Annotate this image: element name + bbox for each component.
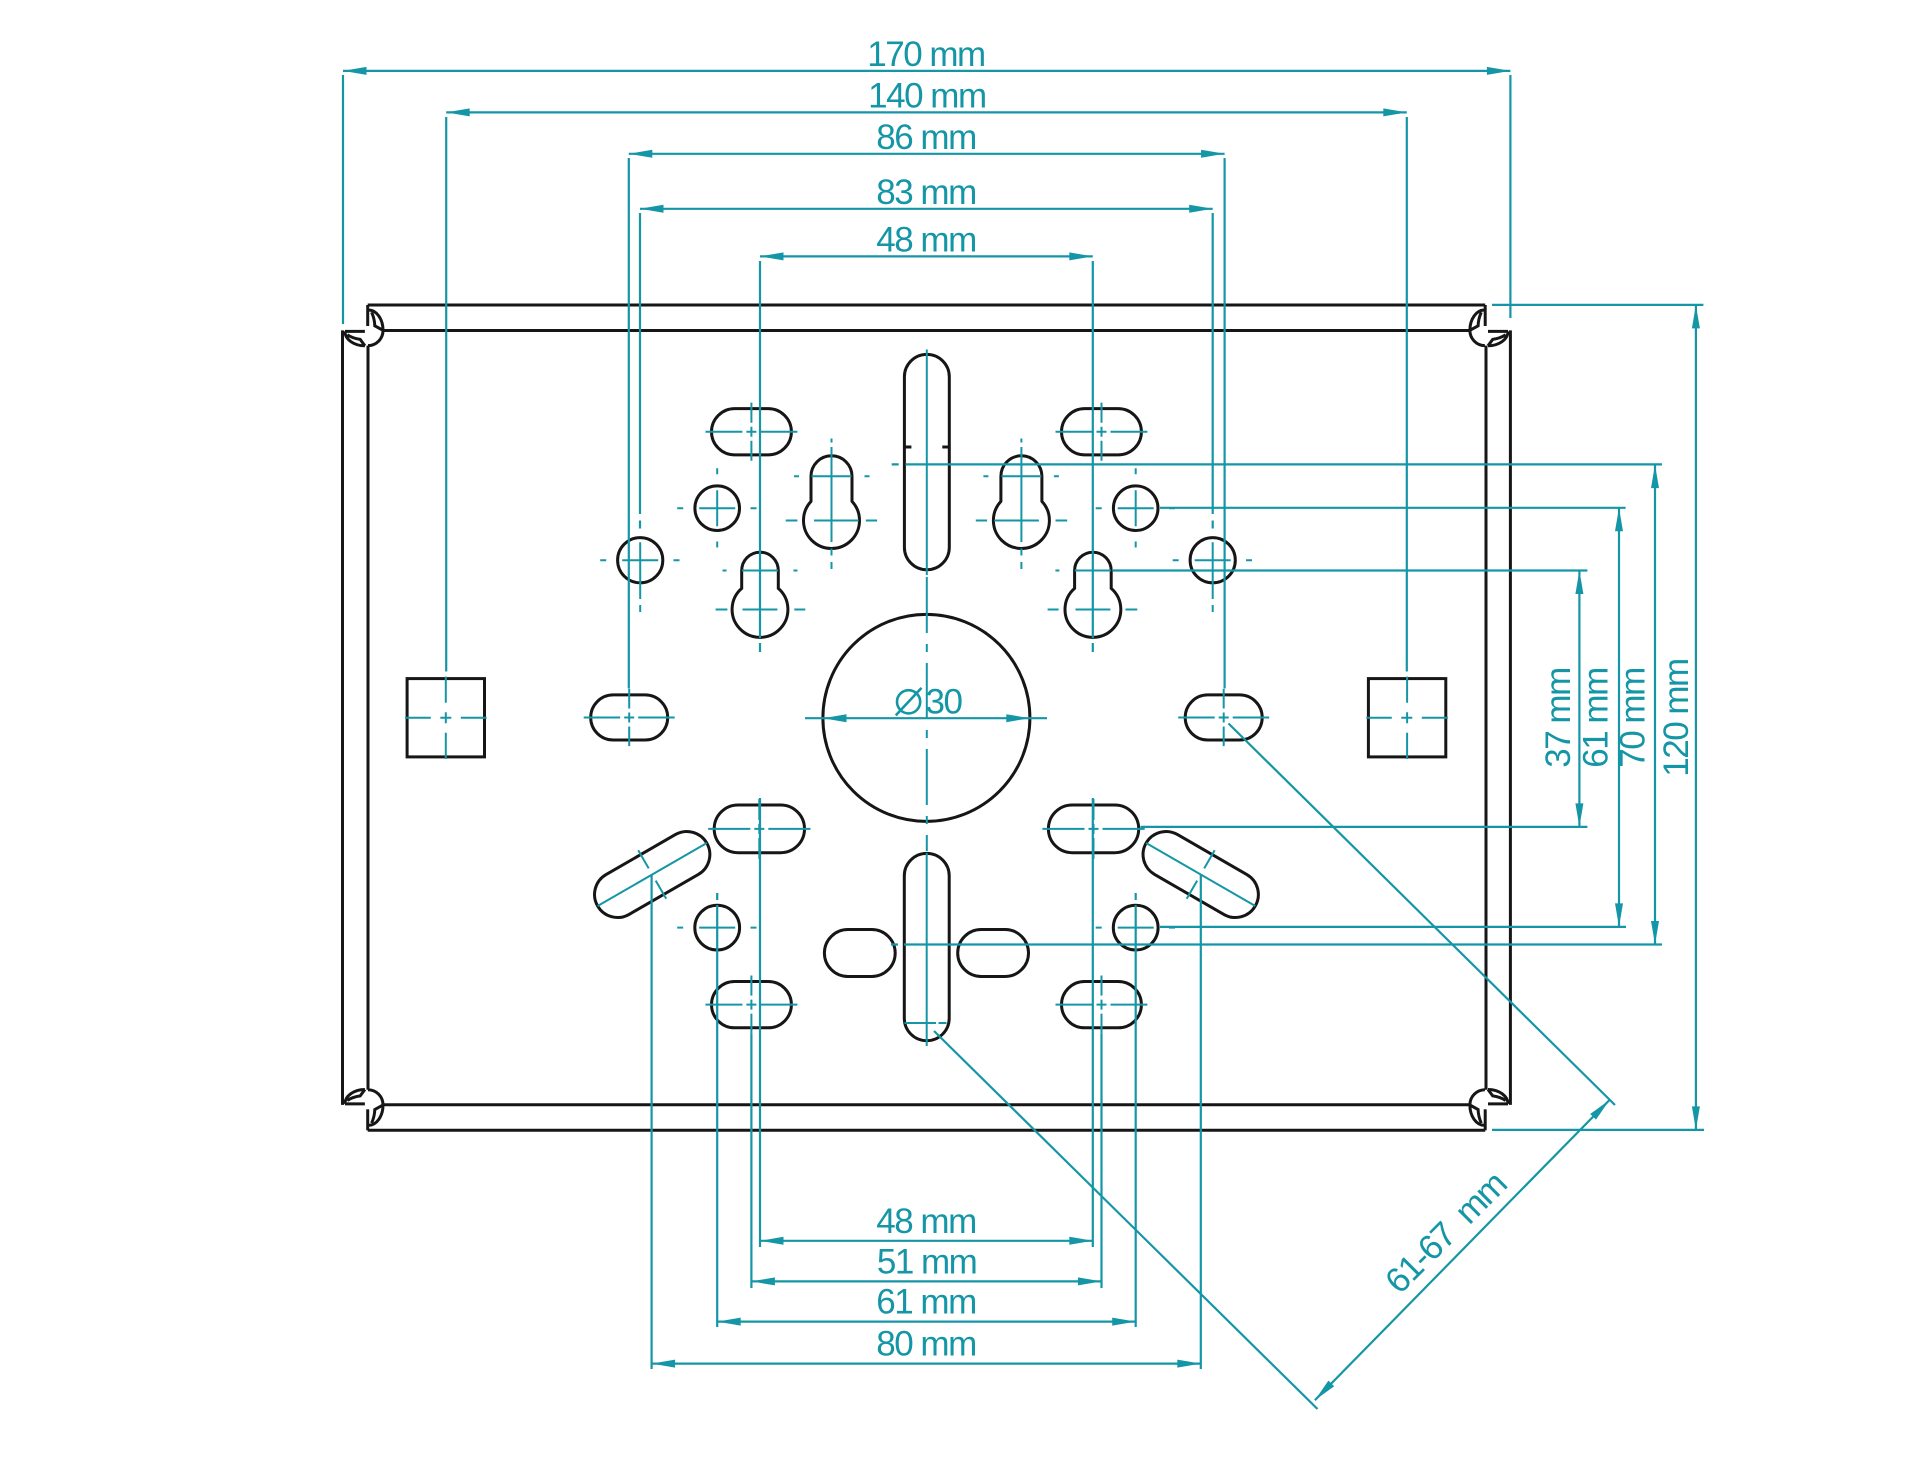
small obround bottom-center right <box>958 930 1029 977</box>
crosshair mid obround left <box>584 689 675 746</box>
keyhole A left <box>804 456 860 549</box>
corner curl bottom-left <box>345 1090 383 1131</box>
crosshair circle upper-inner left <box>677 468 756 547</box>
crosshair circle lower left <box>677 927 756 929</box>
crosshair keyhole B left <box>716 571 806 610</box>
dimension 170 mm <box>343 70 1510 72</box>
crosshair top obround right <box>1056 403 1148 461</box>
central slot top <box>904 354 949 569</box>
dimension 70 mm <box>1654 465 1656 945</box>
dimension 51 mm <box>751 1280 1101 1282</box>
angled slot left <box>586 823 718 926</box>
svg-text:120 mm: 120 mm <box>1657 659 1696 776</box>
centerline angled slot right <box>1146 843 1255 906</box>
square hole right <box>1368 679 1445 757</box>
dimension 48 mm top <box>760 255 1093 257</box>
svg-text:48 mm: 48 mm <box>876 220 975 259</box>
plate top edge inner <box>383 329 1470 332</box>
dimension 83 mm <box>640 208 1213 210</box>
dimension D30 <box>805 717 1047 719</box>
dimension 48 mm bottom <box>760 1240 1093 1242</box>
crosshair square right <box>1366 677 1448 759</box>
svg-text:83 mm: 83 mm <box>876 173 975 212</box>
corner curl bottom-right <box>1470 1090 1508 1131</box>
crosshair keyhole B right <box>1048 571 1138 610</box>
lower obround 51 left <box>712 982 792 1028</box>
dimension 80 mm <box>652 1362 1201 1364</box>
centerline angled slot left <box>598 843 707 906</box>
plate left edge inner <box>367 346 370 1090</box>
svg-text:37 mm: 37 mm <box>1539 668 1578 767</box>
centerline central circle vertical <box>926 350 928 576</box>
dimension 61 mm right <box>1618 508 1620 927</box>
mid obround right <box>1185 695 1262 740</box>
svg-text:170 mm: 170 mm <box>867 35 984 74</box>
svg-text:51 mm: 51 mm <box>877 1242 976 1281</box>
crosshair square left <box>405 677 487 759</box>
central slot top seam ticks <box>904 446 949 449</box>
crosshair lower obround 51 left <box>706 976 798 1034</box>
crosshair circle upper-outer left <box>600 542 679 612</box>
small obround bottom-center left <box>824 930 895 977</box>
keyhole B left <box>732 552 788 637</box>
wide obround 48 left <box>714 805 804 853</box>
central slot bottom <box>904 853 949 1040</box>
svg-text:30: 30 <box>926 683 963 722</box>
dimension 140 mm <box>446 111 1407 113</box>
plate right edge inner <box>1485 346 1488 1090</box>
top obround right <box>1062 409 1142 455</box>
mid obround left <box>591 695 668 740</box>
circle lower left <box>695 905 740 950</box>
circle upper-inner left <box>695 486 740 531</box>
plate left edge outer <box>341 330 344 1105</box>
svg-text:48 mm: 48 mm <box>876 1202 975 1241</box>
svg-text:61 mm: 61 mm <box>1577 668 1616 767</box>
svg-text:140 mm: 140 mm <box>868 76 985 115</box>
wide obround 48 right <box>1048 805 1138 853</box>
corner curl top-left <box>345 305 383 346</box>
plate right edge outer <box>1509 330 1512 1105</box>
square hole left <box>407 679 484 757</box>
circle upper-outer left <box>618 538 663 583</box>
crosshair top obround left <box>706 403 798 461</box>
crosshair keyhole A right <box>976 439 1067 570</box>
dimension 37 mm <box>1578 571 1580 827</box>
crosshair circle upper-outer right <box>1173 542 1252 612</box>
svg-text:80 mm: 80 mm <box>876 1325 975 1364</box>
angled slot right <box>1135 823 1267 926</box>
plate top edge outer <box>368 304 1486 307</box>
crosshair keyhole A left <box>786 439 877 570</box>
dimension 120 mm <box>1695 305 1697 1130</box>
keyhole B right <box>1065 552 1121 637</box>
dimension 61 mm bottom <box>717 1320 1135 1322</box>
dimension 61-67 mm <box>1229 724 1616 1106</box>
plate bottom edge outer <box>368 1129 1486 1132</box>
crosshair circle upper-inner right <box>1096 468 1175 547</box>
corner curl top-right <box>1470 305 1508 346</box>
crosshair wide obround 48 right <box>1042 799 1144 859</box>
plate bottom edge inner <box>383 1103 1470 1106</box>
circle upper-inner right <box>1113 486 1158 531</box>
circle upper-outer right <box>1190 538 1235 583</box>
keyhole A right <box>993 456 1049 549</box>
svg-text:61 mm: 61 mm <box>876 1283 975 1322</box>
lower obround 51 right <box>1062 982 1142 1028</box>
top obround left <box>712 409 792 455</box>
circle lower right <box>1113 905 1158 950</box>
crosshair mid obround right <box>1178 689 1269 746</box>
svg-text:86 mm: 86 mm <box>876 118 975 157</box>
crosshair circle lower right <box>1096 927 1175 929</box>
bottom slot aux mark <box>905 1022 947 1024</box>
dimension 86 mm <box>629 153 1225 155</box>
crosshair wide obround 48 left <box>708 799 810 859</box>
central hole D30 <box>823 614 1030 821</box>
crosshair lower obround 51 right <box>1056 976 1148 1034</box>
